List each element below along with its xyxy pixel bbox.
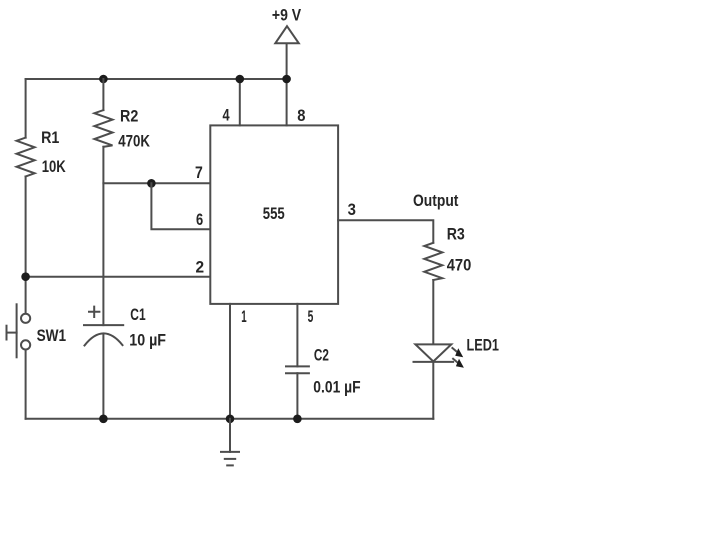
LED arrowheads [455, 348, 463, 357]
wire pin7 [103, 182, 210, 184]
wire R2 bottom to C1 [102, 147, 104, 325]
ground [221, 419, 239, 466]
wire top supply rail [26, 78, 287, 80]
node junction pin7/pin6 [147, 179, 156, 188]
wire R1 top lead [25, 79, 27, 138]
wire LED to bottom rail [432, 362, 434, 419]
wire pin6 branch [151, 183, 210, 229]
svg-text:2: 2 [196, 258, 205, 277]
wire pin3 output [338, 220, 433, 243]
svg-text:555: 555 [263, 204, 285, 223]
svg-text:SW1: SW1 [37, 326, 67, 345]
svg-text:R3: R3 [447, 225, 465, 244]
node junction C2/bottom rail [293, 415, 302, 424]
svg-text:6: 6 [196, 210, 203, 229]
wire R3 to LED [432, 280, 434, 344]
svg-text:470K: 470K [118, 132, 150, 151]
svg-text:+9 V: +9 V [272, 5, 302, 24]
wire C1 bottom lead [102, 335, 104, 419]
wire R2 top lead [102, 79, 104, 110]
node junction R2 top [99, 75, 108, 84]
svg-text:LED1: LED1 [467, 336, 499, 355]
svg-text:5: 5 [308, 307, 314, 326]
node junction R1/SW1/pin2 [21, 272, 30, 281]
op-amp U1 555 IC body [210, 125, 338, 304]
resistor R1 [17, 138, 35, 177]
wire pin2 to left rail [26, 276, 211, 278]
power +9V symbol [275, 26, 299, 43]
capacitor C2 [286, 366, 309, 373]
svg-text:0.01 µF: 0.01 µF [313, 377, 360, 396]
capacitor C1 [84, 307, 123, 346]
wire bottom ground rail [26, 418, 434, 420]
node junction pin4 [236, 75, 245, 84]
svg-text:R1: R1 [41, 128, 59, 147]
resistor R3 [424, 243, 442, 280]
LED LED1 [414, 344, 461, 364]
node junction pin8/supply [282, 75, 291, 84]
node junction C1/bottom rail [99, 415, 108, 424]
resistor R2 [94, 110, 112, 147]
svg-text:C1: C1 [130, 305, 145, 324]
wire +9V stem to pin8 [286, 43, 288, 125]
svg-text:3: 3 [348, 200, 356, 219]
svg-text:4: 4 [223, 105, 230, 124]
svg-text:R2: R2 [120, 107, 138, 126]
switch SW1 [7, 304, 31, 357]
svg-text:10 µF: 10 µF [129, 331, 166, 350]
svg-text:1: 1 [241, 307, 246, 326]
node junction pin1/ground [226, 415, 235, 424]
wire pin1 to ground [229, 304, 231, 419]
wire C2 bottom lead [296, 373, 298, 419]
svg-text:470: 470 [447, 256, 472, 275]
svg-text:C2: C2 [314, 346, 329, 365]
svg-text:7: 7 [195, 163, 203, 182]
wire R1 bottom to SW1 [25, 177, 27, 314]
wire SW1 to bottom rail [25, 350, 27, 419]
svg-text:10K: 10K [42, 157, 67, 176]
wire pin5 to C2 [296, 304, 298, 367]
svg-text:8: 8 [297, 106, 305, 125]
wire pin4 [239, 79, 241, 125]
svg-text:Output: Output [413, 191, 459, 210]
